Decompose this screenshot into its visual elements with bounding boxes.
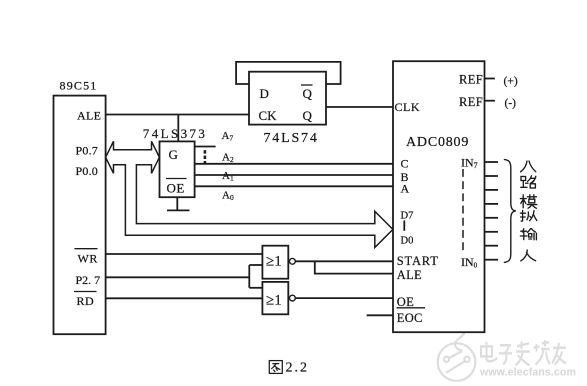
svg-text:D0: D0 [401, 235, 414, 246]
svg-text:74LS373: 74LS373 [143, 126, 207, 141]
svg-text:OE: OE [167, 181, 185, 196]
svg-text:(-): (-) [505, 98, 517, 110]
svg-text:2.2: 2.2 [286, 361, 310, 376]
svg-text:WR: WR [78, 252, 98, 266]
svg-text:START: START [397, 254, 439, 268]
svg-text:89C51: 89C51 [60, 79, 98, 93]
svg-text:CLK: CLK [395, 100, 421, 114]
svg-text:C: C [401, 156, 409, 170]
svg-text:G: G [169, 147, 178, 162]
svg-text:D: D [260, 86, 269, 101]
svg-text:P2. 7: P2. 7 [76, 273, 101, 287]
svg-text:P0.7: P0.7 [76, 144, 98, 158]
svg-text:REF: REF [459, 95, 483, 109]
svg-text:ALE: ALE [397, 268, 422, 282]
svg-text:Q: Q [303, 86, 313, 101]
svg-text:≥1: ≥1 [266, 293, 282, 309]
svg-text:RD: RD [77, 294, 95, 308]
svg-text:A: A [401, 182, 410, 196]
svg-text:74LS74: 74LS74 [264, 131, 319, 146]
svg-text:(+): (+) [504, 76, 518, 88]
svg-text:ALE: ALE [77, 109, 101, 123]
svg-text:Q: Q [303, 108, 313, 123]
svg-text:ADC0809: ADC0809 [406, 135, 469, 150]
svg-text:≥1: ≥1 [266, 254, 282, 270]
svg-text:D7: D7 [401, 210, 414, 221]
svg-text:P0.0: P0.0 [76, 164, 98, 178]
svg-text:REF: REF [459, 73, 483, 87]
svg-text:OE: OE [397, 295, 414, 309]
svg-text:www.elecfans.com: www.elecfans.com [479, 367, 576, 379]
svg-text:EOC: EOC [397, 311, 423, 325]
svg-text:CK: CK [259, 108, 278, 123]
